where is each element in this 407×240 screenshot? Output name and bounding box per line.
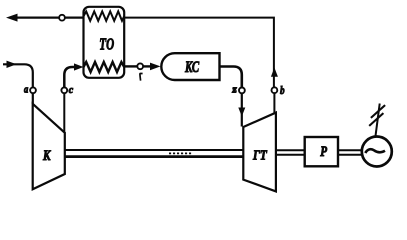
wire: node g toward KC bbox=[143, 65, 150, 67]
wire: b node to turbine top-right bbox=[273, 93, 275, 113]
combustion chamber KC bbox=[161, 53, 219, 80]
arrow into TO bottom coil bbox=[74, 63, 84, 70]
arrow: exhaust outlet pointing left bbox=[6, 14, 18, 22]
svg-text:Р: Р bbox=[320, 144, 327, 160]
heat exchanger TO box bbox=[84, 7, 125, 78]
svg-text:a: a bbox=[24, 84, 28, 95]
wire: KC outlet to node z bbox=[220, 67, 242, 88]
svg-text:z: z bbox=[231, 84, 237, 95]
svg-text:ТО: ТО bbox=[99, 34, 114, 53]
shaft dashed coupling mark bbox=[169, 152, 192, 154]
wire: node a to compressor inlet bbox=[32, 93, 34, 104]
arrow up on b line bbox=[271, 68, 278, 77]
gearbox P box bbox=[305, 137, 338, 166]
svg-text:b: b bbox=[280, 83, 285, 97]
compressor K body bbox=[33, 104, 65, 190]
wire: generator to grid bbox=[375, 104, 379, 137]
generator tilde symbol bbox=[365, 149, 385, 153]
node on exhaust line bbox=[59, 15, 65, 21]
grid connection slash 1 bbox=[369, 113, 383, 126]
svg-text:К: К bbox=[42, 148, 51, 164]
shaft gearbox-generator upper bbox=[338, 149, 362, 151]
TO top coil zigzag bbox=[84, 11, 125, 20]
node g bbox=[137, 63, 143, 69]
shaft gearbox-generator lower bbox=[338, 154, 362, 156]
arrow into KC bbox=[150, 63, 161, 71]
shaft turbine-gearbox lower bbox=[276, 154, 305, 156]
node z bbox=[239, 88, 245, 94]
shaft turbine-gearbox upper bbox=[276, 149, 305, 151]
TO bottom coil zigzag bbox=[84, 62, 125, 72]
node a bbox=[30, 87, 36, 93]
turbine GT body bbox=[243, 113, 276, 192]
label g bbox=[140, 73, 143, 80]
node b bbox=[272, 87, 278, 93]
wire: air inlet to node a and compressor bbox=[3, 64, 33, 87]
wire: node c up and right into TO bottom coil bbox=[64, 67, 76, 87]
arrow: air inlet pointing right bbox=[7, 61, 17, 68]
wire: compressor outlet to node c bbox=[63, 93, 65, 132]
shaft compressor-turbine lower line bbox=[65, 155, 244, 158]
generator circle bbox=[362, 137, 392, 167]
svg-text:ГТ: ГТ bbox=[252, 149, 268, 164]
svg-text:КС: КС bbox=[184, 59, 199, 76]
wire: TO top-right to corner and down toward b bbox=[124, 18, 274, 88]
wire: exhaust line from TO to left edge bbox=[10, 17, 84, 19]
arrow down into turbine bbox=[238, 108, 245, 117]
wire: TO bottom coil to node g bbox=[124, 65, 137, 67]
svg-text:c: c bbox=[69, 85, 74, 96]
shaft compressor-turbine upper line bbox=[65, 149, 244, 151]
node c bbox=[61, 87, 67, 93]
wire: node z down into turbine bbox=[241, 93, 243, 126]
grid connection slash 2 bbox=[371, 105, 385, 118]
